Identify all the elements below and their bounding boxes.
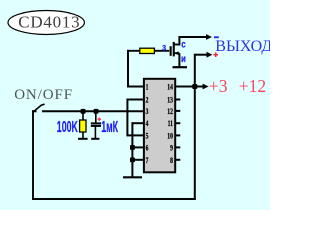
- ellipse label CD4013: [8, 11, 84, 35]
- svg-text:с: с: [181, 39, 185, 50]
- wire: pin4 chain vertical to ground: [131, 122, 133, 177]
- svg-text:1: 1: [146, 84, 149, 92]
- svg-text:10: 10: [167, 133, 173, 141]
- ground: R1 terminal bar: [78, 138, 88, 140]
- wire: pin 6 horizontal: [132, 146, 144, 148]
- svg-text:ВЫХОД: ВЫХОД: [215, 38, 270, 55]
- svg-text:з: з: [162, 42, 166, 53]
- arrow: output minus: [206, 34, 212, 40]
- resistor R2 (gate series, horizontal): [140, 48, 155, 53]
- svg-text:3: 3: [146, 108, 149, 116]
- svg-text:1мК: 1мК: [101, 118, 118, 135]
- pin stub 13: [175, 99, 180, 101]
- arrow: output plus: [207, 52, 213, 58]
- svg-text:CD4013: CD4013: [18, 13, 80, 32]
- wire: top rail (drain to minus output): [179, 36, 208, 38]
- wire: gate net horizontal (corner to R2): [127, 50, 140, 52]
- wire: pin 7 horizontal: [132, 159, 144, 161]
- wire: bottom border: [32, 198, 196, 200]
- svg-text:12: 12: [167, 108, 173, 116]
- svg-text:ON/OFF: ON/OFF: [14, 87, 73, 103]
- pin stub 10: [175, 134, 180, 136]
- node: junction at R1: [81, 109, 86, 114]
- pin stub 11: [175, 122, 180, 124]
- arrow: supply plus: [203, 84, 209, 90]
- wire: pin 1 horizontal: [127, 86, 144, 88]
- pin stub 8: [175, 159, 180, 161]
- wire: right rail vertical: [194, 54, 196, 200]
- node: junction pin 7: [130, 157, 135, 162]
- svg-text:11: 11: [168, 120, 174, 128]
- wire: left border vertical: [32, 110, 34, 200]
- svg-text:+3: +3: [209, 76, 228, 96]
- wire: pin2-pin5 vertical: [126, 99, 128, 137]
- svg-text:5: 5: [146, 133, 149, 141]
- capacitor C1 1мК (polarized): [91, 111, 101, 139]
- label: C1 polarity +: [98, 118, 102, 122]
- wire: main horizontal (switch to pin 3): [42, 110, 144, 112]
- svg-text:6: 6: [146, 145, 149, 153]
- wire: pin 5 horizontal: [127, 134, 143, 136]
- IC U1 CD4013 body: [144, 79, 175, 173]
- wire: R2 to gate: [154, 50, 169, 52]
- svg-text:7: 7: [146, 157, 149, 165]
- svg-text:8: 8: [170, 157, 173, 165]
- switch S1 ON/OFF: [32, 104, 45, 111]
- svg-text:14: 14: [167, 84, 173, 92]
- svg-text:2: 2: [146, 97, 149, 105]
- svg-text:100K: 100K: [57, 118, 78, 135]
- label minus: [214, 36, 219, 38]
- wire: pin 2 horizontal: [127, 99, 143, 101]
- wire: plus output from rail: [195, 54, 207, 56]
- svg-text:9: 9: [170, 145, 173, 153]
- wire: pin 4 horizontal: [132, 122, 144, 124]
- node: junction pin 14 / rail: [192, 84, 197, 89]
- node: junction pin 6: [130, 145, 135, 150]
- svg-text:+12: +12: [239, 76, 267, 96]
- svg-text:и: и: [181, 53, 186, 64]
- pin stub 12: [175, 110, 180, 112]
- svg-text:4: 4: [146, 120, 149, 128]
- pin stub 9: [175, 146, 180, 148]
- svg-text:13: 13: [167, 97, 173, 105]
- resistor R1 100K (vertical): [80, 111, 86, 139]
- wire: gate net vertical down to pin 1: [127, 50, 129, 88]
- node: junction at C1: [94, 109, 99, 114]
- ground: pin4/6/7 terminal bar: [123, 176, 142, 178]
- ground: VT1 source terminal bar: [173, 66, 188, 68]
- wire: pin 14 to plus rail: [175, 86, 204, 88]
- ground: C1 terminal bar: [91, 138, 99, 140]
- transistor VT1 n-channel MOSFET: [171, 36, 180, 67]
- label plus (output): [213, 52, 218, 57]
